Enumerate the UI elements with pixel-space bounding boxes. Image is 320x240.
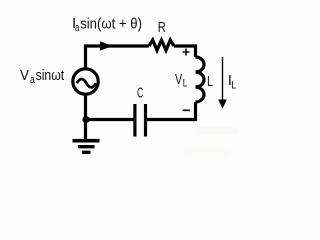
- minus polarity mark: [183, 109, 190, 111]
- svg-text:L: L: [231, 79, 236, 91]
- ground bar 2: [78, 145, 95, 148]
- voltage source circle: [73, 69, 98, 94]
- svg-text:V: V: [175, 71, 182, 88]
- label Ia sin(wt + theta): [72, 15, 142, 34]
- wire: junction up to source bottom: [84, 96, 87, 120]
- svg-text:sin(ωt + θ): sin(ωt + θ): [80, 16, 142, 33]
- label Va sinwt: [20, 67, 65, 86]
- I_L arrow head: [218, 100, 227, 109]
- plus polarity mark: [183, 49, 190, 56]
- junction node dot: [82, 116, 89, 123]
- wire: capacitor left plate to junction: [86, 118, 134, 121]
- capacitor C right plate: [144, 104, 147, 137]
- wire: resistor to top-right corner down to coil top: [174, 46, 196, 57]
- svg-text:L: L: [183, 78, 188, 90]
- svg-text:R: R: [158, 19, 166, 36]
- svg-text:sinωt: sinωt: [36, 67, 65, 84]
- label I_L: [228, 72, 237, 91]
- capacitor C left plate: [133, 104, 136, 137]
- wire: top-left corner from source top up and right to resistor: [86, 46, 150, 68]
- faint watermark smudge: [184, 127, 238, 159]
- ground bar 3: [82, 151, 91, 154]
- wire: coil bottom to bottom-right corner and left to capacitor: [147, 102, 196, 120]
- svg-text:C: C: [137, 84, 143, 101]
- ground bar 1: [73, 139, 100, 143]
- I_L arrow line: [222, 57, 224, 100]
- current arrow on top wire: [100, 41, 113, 50]
- svg-text:L: L: [207, 73, 213, 90]
- resistor R zigzag: [149, 40, 174, 50]
- label V_L: [175, 71, 187, 90]
- sine symbol inside source: [77, 79, 96, 87]
- ground stem: [84, 120, 87, 140]
- svg-text:V: V: [20, 67, 29, 84]
- inductor L coil (3 bumps bulging right): [196, 57, 205, 102]
